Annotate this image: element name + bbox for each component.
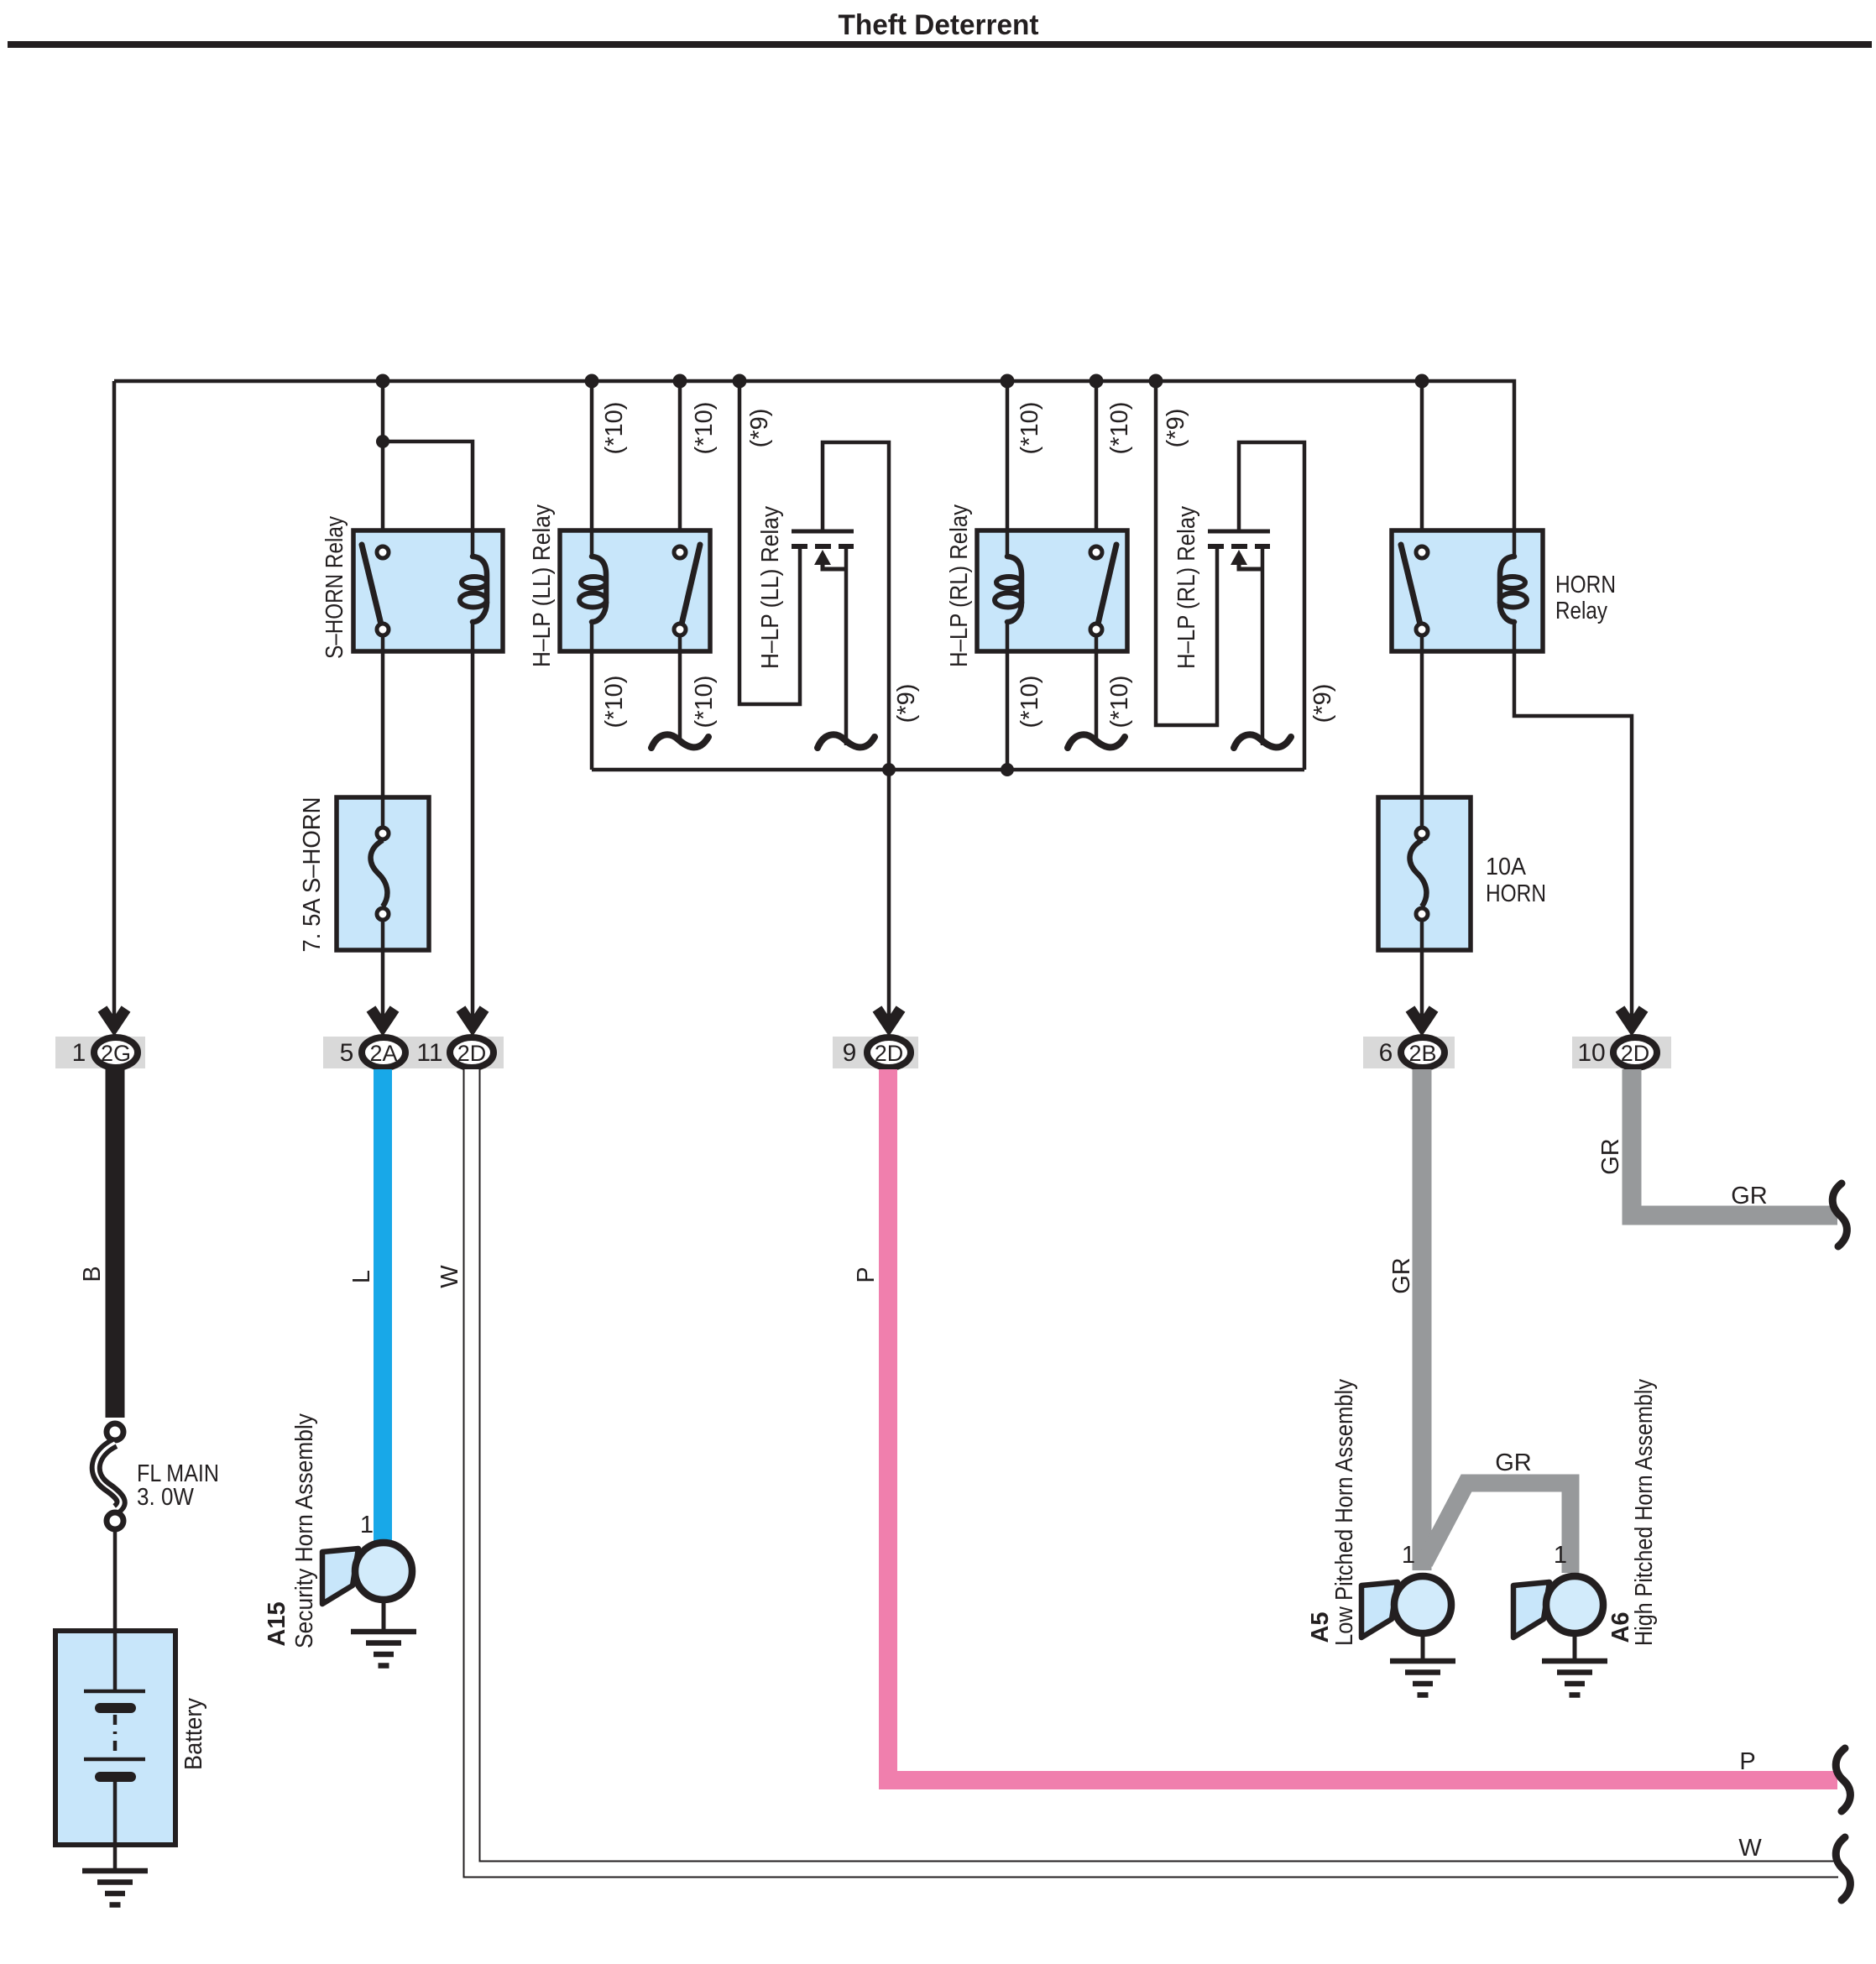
wire fusible link to battery [113, 1529, 118, 1631]
wire H-LP (LL) semiconductor relay source loop [739, 381, 800, 704]
svg-text:(*10): (*10) [691, 676, 718, 729]
wire L blue to security horn [374, 1069, 392, 1543]
pin arrow into connector 2D-11 [461, 1009, 484, 1026]
pin arrow into connector 2D-9 [877, 1009, 901, 1026]
wire HORN relay to 10A fuse [1420, 635, 1424, 797]
svg-text:W: W [1738, 1835, 1762, 1862]
svg-text:(*10): (*10) [691, 402, 718, 455]
svg-text:Theft Deterrent: Theft Deterrent [839, 9, 1039, 41]
wire H-LP (RL) relay switch drop [1095, 381, 1099, 547]
label H-LP (LL) Relay (semiconductor) [757, 506, 784, 669]
continuation squiggle GR [1832, 1183, 1847, 1246]
label (*10) b [691, 402, 718, 455]
svg-text:W: W [436, 1265, 463, 1288]
svg-text:Security Horn Assembly: Security Horn Assembly [291, 1413, 318, 1648]
svg-text:H–LP (LL) Relay: H–LP (LL) Relay [529, 504, 556, 667]
label A5 Low Pitched Horn Assembly [1307, 1379, 1358, 1646]
svg-text:(*9): (*9) [1163, 409, 1189, 448]
transistor H-LP (RL) Relay (semiconductor) [1208, 442, 1304, 770]
label GR bridge [1495, 1449, 1532, 1476]
pin 1 A5 [1402, 1542, 1415, 1569]
label HORN Relay [1555, 572, 1616, 624]
relay H-LP (RL) Relay [977, 529, 1127, 653]
node bus junction x=881 [733, 374, 747, 389]
svg-text:Relay: Relay [1555, 598, 1607, 624]
node bus junction x=1377 [1149, 374, 1163, 389]
svg-text:H–LP (RL) Relay: H–LP (RL) Relay [946, 504, 973, 667]
node rail junction 2 [1001, 763, 1014, 776]
svg-text:7. 5A S–HORN: 7. 5A S–HORN [299, 797, 326, 953]
wire GR grey from 10 2D to right edge [1632, 1069, 1837, 1215]
wire S-HORN relay switch drop [381, 381, 385, 547]
wire GR grey from 6 2B to low horn [1413, 1069, 1432, 1570]
svg-text:P: P [853, 1267, 880, 1282]
svg-text:10: 10 [1577, 1039, 1605, 1067]
wire left drop to connector 2G [112, 381, 117, 1024]
svg-text:6: 6 [1379, 1039, 1393, 1067]
svg-text:1: 1 [1554, 1542, 1567, 1569]
label GR vertical b [1597, 1138, 1624, 1175]
svg-text:2G: 2G [101, 1041, 131, 1066]
wire H-LP (RL) relay coil drop [1006, 381, 1010, 530]
wire W white to right edge [472, 1069, 1838, 1869]
svg-text:11: 11 [416, 1039, 442, 1067]
ground battery [82, 1871, 148, 1905]
label 10A HORN [1486, 854, 1546, 907]
wire H-LP (RL) coil to bottom rail [1006, 653, 1010, 770]
label L [348, 1270, 375, 1283]
pin 1 A6 [1554, 1542, 1567, 1569]
label (*10) c [601, 676, 628, 729]
svg-text:1: 1 [360, 1512, 374, 1538]
svg-text:2D: 2D [1621, 1041, 1650, 1066]
svg-text:(*10): (*10) [601, 676, 628, 729]
label A15 Security Horn Assembly [264, 1413, 318, 1648]
label H-LP (RL) Relay [946, 504, 973, 667]
node bus junction x=1694 [1415, 374, 1429, 389]
label H-LP (RL) Relay (semiconductor) [1173, 506, 1200, 669]
node rail junction 1 [882, 763, 896, 776]
wire H-LP (LL) switch stub [651, 635, 708, 748]
svg-text:L: L [348, 1270, 375, 1283]
transistor H-LP (LL) Relay (semiconductor) [792, 442, 889, 770]
horn A15 Security Horn Assembly [322, 1543, 412, 1630]
label P horizontal [1739, 1748, 1755, 1775]
svg-text:(*10): (*10) [601, 402, 628, 455]
connector 5 2A / 11 2D [323, 1037, 504, 1068]
label (*9) b [893, 684, 920, 723]
svg-text:GR: GR [1597, 1138, 1624, 1175]
svg-text:P: P [1739, 1748, 1755, 1775]
wire bottom rail [592, 768, 1304, 772]
pin arrow into connector 2B [1410, 1009, 1434, 1026]
label (*9) a [746, 409, 773, 448]
svg-text:A15: A15 [264, 1601, 290, 1646]
wire rail to connector 9 2D [887, 770, 891, 1024]
pin 1 A15 [360, 1512, 374, 1538]
svg-text:(*9): (*9) [746, 409, 773, 448]
svg-text:2B: 2B [1408, 1041, 1436, 1066]
relay H-LP (LL) Relay [560, 529, 710, 653]
svg-text:GR: GR [1495, 1449, 1532, 1476]
wire fuse to connector 6 2B [1420, 950, 1424, 1024]
svg-text:10A: 10A [1486, 854, 1527, 880]
label A6 High Pitched Horn Assembly [1607, 1379, 1658, 1646]
svg-text:Low Pitched Horn Assembly: Low Pitched Horn Assembly [1331, 1379, 1358, 1646]
svg-text:(*10): (*10) [1106, 402, 1133, 455]
svg-text:HORN: HORN [1486, 880, 1546, 907]
svg-text:A5: A5 [1307, 1611, 1334, 1643]
node bus junction x=1200 [1001, 374, 1015, 389]
label (*10) f [1106, 402, 1133, 455]
label (*10) g [1016, 676, 1043, 729]
node bus junction x=456 [376, 374, 390, 389]
horn A6 High Pitched Horn Assembly [1513, 1576, 1603, 1659]
relay S-HORN Relay [353, 529, 503, 653]
wire H-LP (LL) relay switch drop [678, 381, 682, 547]
svg-text:B: B [79, 1266, 106, 1282]
svg-text:(*9): (*9) [1309, 684, 1336, 723]
wire branch to S-HORN relay coil [383, 441, 473, 530]
svg-text:2A: 2A [369, 1041, 397, 1066]
svg-text:GR: GR [1731, 1183, 1768, 1209]
label 7. 5A S-HORN [299, 797, 326, 953]
svg-text:3. 0W: 3. 0W [137, 1484, 195, 1511]
continuation squiggle P [1836, 1748, 1850, 1811]
fuse 7.5A S-HORN [337, 797, 429, 950]
node bus junction x=705 [585, 374, 599, 389]
wire H-LP (LL) coil to bottom rail [590, 653, 594, 770]
svg-text:2D: 2D [875, 1041, 904, 1066]
label (*10) h [1106, 676, 1133, 729]
svg-text:(*9): (*9) [893, 684, 920, 723]
wire H-LP (LL) relay coil drop [590, 381, 594, 530]
label S-HORN Relay [321, 516, 348, 659]
svg-text:(*10): (*10) [1016, 676, 1043, 729]
node branch junction [376, 435, 389, 448]
svg-text:1: 1 [72, 1039, 86, 1067]
wire main power bus from battery feed across top [114, 381, 1514, 530]
node bus junction x=1306 [1090, 374, 1104, 389]
label W vertical [436, 1265, 463, 1288]
battery Battery [55, 1631, 175, 1871]
connector 9 2D [833, 1037, 918, 1068]
pin arrow into connector 2A [371, 1009, 395, 1026]
wire H-LP (RL) switch stub [1068, 635, 1125, 748]
label (*9) d [1309, 684, 1336, 723]
wire S-HORN relay coil to connector 11 2D [471, 653, 475, 1024]
wire P pink to right edge [888, 1069, 1837, 1780]
pin arrow into connector 2D-10 [1620, 1009, 1643, 1026]
label (*9) c [1163, 409, 1189, 448]
wire S-HORN relay to 7.5A fuse [381, 635, 385, 797]
svg-text:9: 9 [843, 1039, 857, 1067]
svg-text:2D: 2D [457, 1041, 487, 1066]
label H-LP (LL) Relay [529, 504, 556, 667]
svg-text:H–LP (LL) Relay: H–LP (LL) Relay [757, 506, 784, 669]
pin arrow into connector 2G [102, 1009, 126, 1026]
label (*10) a [601, 402, 628, 455]
ground A15 [351, 1632, 416, 1666]
svg-text:H–LP (RL) Relay: H–LP (RL) Relay [1173, 506, 1200, 669]
svg-text:(*10): (*10) [1106, 676, 1133, 729]
wire H-LP (RL) semiconductor relay source loop [1156, 381, 1217, 725]
relay HORN Relay [1392, 529, 1543, 653]
connector 10 2D [1572, 1037, 1671, 1068]
label FL MAIN 3. 0W [137, 1460, 219, 1511]
label Battery [180, 1698, 207, 1770]
label GR horizontal [1731, 1183, 1768, 1209]
wire B black battery feed [106, 1069, 125, 1418]
wire GR bridge to high horn [1424, 1483, 1570, 1573]
svg-text:(*10): (*10) [1016, 402, 1043, 455]
horn A5 Low Pitched Horn Assembly [1361, 1576, 1451, 1659]
fusible link FL MAIN 3.0W [96, 1423, 123, 1529]
wire HORN relay coil to connector 10 2D [1514, 653, 1632, 1024]
connector 1 2G [55, 1037, 145, 1068]
ground A5 [1390, 1661, 1455, 1695]
fuse 10A HORN [1378, 797, 1471, 950]
svg-text:5: 5 [340, 1039, 354, 1067]
title rule [8, 41, 1872, 48]
ground A6 [1542, 1661, 1607, 1695]
continuation squiggle W [1836, 1837, 1850, 1900]
wire HORN relay switch drop [1420, 381, 1424, 547]
label W horizontal [1738, 1835, 1762, 1862]
label P vertical [853, 1267, 880, 1282]
svg-text:High Pitched Horn Assembly: High Pitched Horn Assembly [1631, 1379, 1658, 1646]
node bus junction x=810 [673, 374, 687, 389]
svg-text:Battery: Battery [180, 1698, 207, 1770]
svg-text:1: 1 [1402, 1542, 1415, 1569]
wire fuse to connector 5 2A [381, 950, 385, 1024]
svg-text:S–HORN Relay: S–HORN Relay [321, 516, 348, 659]
svg-text:GR: GR [1388, 1257, 1415, 1294]
svg-text:HORN: HORN [1555, 572, 1616, 598]
label B [79, 1266, 106, 1282]
title Theft Deterrent [839, 9, 1039, 41]
label (*10) d [691, 676, 718, 729]
connector 6 2B [1363, 1037, 1455, 1068]
label (*10) e [1016, 402, 1043, 455]
label GR vertical a [1388, 1257, 1415, 1294]
